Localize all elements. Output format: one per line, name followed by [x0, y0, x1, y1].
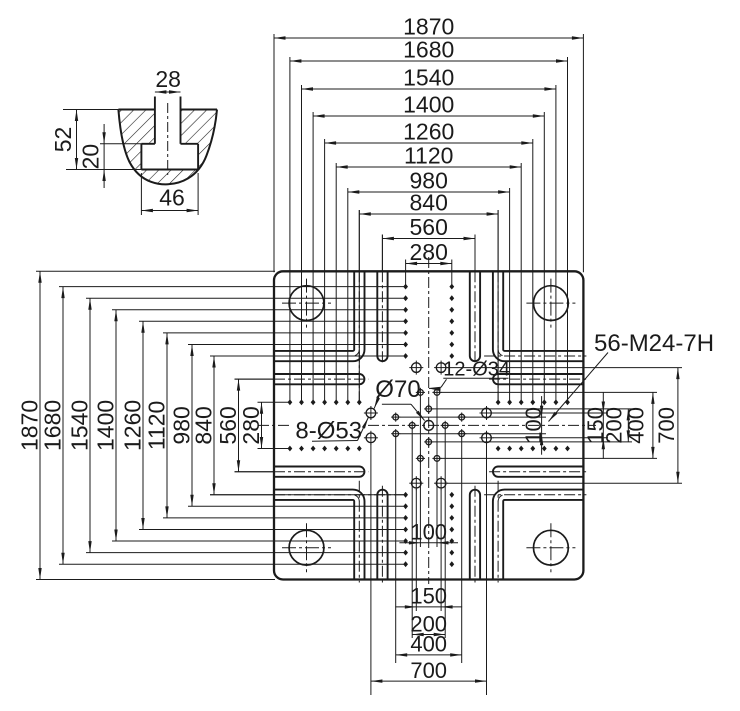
ext line x=+200 to bottom dims — [461, 438, 463, 663]
M24 tapped holes left column (x=±140) — [403, 284, 408, 567]
straight T-slot right upper horizontal — [493, 374, 583, 384]
dimension left 1260 — [119, 321, 405, 529]
dimension top 1400 — [313, 92, 544, 403]
ext line x=-100 to bottom dims — [411, 429, 413, 638]
detail slot outline — [141, 97, 198, 170]
svg-text:1540: 1540 — [403, 65, 454, 91]
svg-text:56-M24-7H: 56-M24-7H — [594, 330, 714, 357]
ext line x=+75 to bottom 150 dim — [440, 489, 442, 611]
dimension right 150 — [583, 392, 608, 459]
dimension top 1260 — [325, 119, 533, 403]
ext line y=+75 to right 150 dim — [493, 437, 609, 439]
840 extension / elbow centerline vertical right — [497, 210, 499, 271]
ext line x=-50 to bottom 100 dim — [419, 396, 421, 547]
dimension bottom 400 — [396, 632, 462, 657]
dimension left 840 — [190, 356, 405, 495]
dimension bottom 700 — [371, 658, 487, 683]
svg-text:840: 840 — [410, 190, 448, 216]
dimension top 1540 — [302, 65, 556, 403]
straight T-slot left lower horizontal — [274, 466, 364, 476]
straight T-slot top-left vertical — [377, 271, 387, 361]
ext line y=+100 to right dims — [433, 441, 632, 443]
right elbow centerline horizontals — [484, 355, 586, 357]
M24 tapped holes top row (y=±140) — [288, 399, 570, 405]
dimension right 700 — [654, 368, 680, 484]
svg-text:700: 700 — [410, 658, 447, 683]
svg-text:1120: 1120 — [143, 401, 169, 450]
detail dimension 46 — [141, 173, 198, 215]
elbow T-slot top-left — [274, 271, 365, 361]
svg-text:100: 100 — [521, 407, 546, 444]
M24 tapped holes right column (x=±140) — [449, 284, 454, 567]
slot centerline bottom-left — [381, 486, 383, 583]
svg-text:1680: 1680 — [39, 400, 65, 451]
detail dimension 28 — [155, 66, 181, 94]
detail slot white cutout — [141, 107, 198, 170]
ext line x=+100 to bottom dims — [444, 429, 446, 638]
svg-text:1260: 1260 — [119, 400, 145, 451]
bottom elbow centerline verticals — [358, 481, 360, 583]
svg-text:840: 840 — [190, 406, 216, 444]
slot centerline right-upper — [489, 378, 586, 380]
svg-text:1540: 1540 — [66, 400, 92, 451]
svg-text:400: 400 — [623, 407, 648, 444]
straight T-slot bottom-left vertical — [377, 490, 387, 580]
ext line y=+50 to right 100 dim — [400, 433, 546, 435]
dimension top 280 — [406, 239, 452, 286]
dimension left 980 — [168, 345, 405, 507]
svg-text:46: 46 — [159, 185, 185, 211]
detail body top edge — [118, 109, 154, 111]
svg-text:1680: 1680 — [403, 37, 454, 63]
dimension top 560 — [382, 214, 475, 271]
dimension top 980 — [348, 168, 510, 403]
svg-text:20: 20 — [78, 144, 104, 170]
dimension left 1120 — [143, 333, 405, 518]
ext line y=+350 Ø53 row to right dims — [447, 482, 682, 484]
dimension top 1870 — [274, 14, 583, 273]
ext line y=+200 to right dims — [441, 457, 657, 459]
straight T-slot top-right vertical — [470, 271, 480, 361]
dimension left 1400 — [92, 310, 405, 541]
svg-text:28: 28 — [155, 66, 181, 92]
svg-text:100: 100 — [410, 520, 447, 545]
tie bar hole circle 2 — [526, 279, 575, 328]
label Ø70 with leader — [375, 376, 424, 421]
840 extension / elbow centerline horizontal bottom — [210, 494, 274, 496]
detail slot centerline — [167, 103, 169, 175]
dimension top 840 — [359, 190, 498, 403]
ext line x=-75 to bottom 150 dim — [415, 489, 417, 611]
svg-text:400: 400 — [410, 632, 447, 657]
dimension left 1870 — [16, 271, 275, 579]
label 8-Ø53 with leader — [295, 418, 368, 445]
dimension left 560 — [215, 379, 274, 472]
elbow T-slot bottom-left — [274, 490, 365, 580]
ext line x=-350 Ø53 col to bottom dims — [370, 444, 372, 695]
svg-text:1120: 1120 — [404, 143, 453, 169]
840 extension / elbow centerline horizontal top — [210, 355, 274, 357]
ext line x=+50 to bottom 100 dim — [436, 396, 438, 547]
dimension left 1540 — [66, 298, 405, 552]
svg-text:52: 52 — [50, 127, 76, 153]
elbow T-slot bottom-right — [493, 490, 584, 580]
detail dimension 52 — [50, 110, 141, 170]
8 x Ø53 holes — [364, 361, 494, 491]
ext line y=-350 Ø53 row to right dims — [447, 367, 682, 369]
ext line y=-50 to right 100 dim — [400, 416, 546, 418]
dimension left 280 — [238, 402, 290, 448]
svg-text:1260: 1260 — [403, 119, 454, 145]
840 extension / elbow centerline vertical left — [358, 210, 360, 271]
ext line y=-75 to right 150 dim — [493, 412, 609, 414]
slot centerline bottom-right — [474, 486, 476, 583]
label 12-Ø34 with leader — [429, 359, 510, 392]
svg-text:Ø70: Ø70 — [375, 376, 420, 403]
center hole Ø70 — [424, 421, 434, 431]
12 x Ø34 holes — [391, 388, 466, 463]
tie bar hole circle 1 — [282, 279, 331, 328]
M24 tapped holes bottom row (y=±140) — [288, 446, 570, 452]
horizontal centerline — [258, 424, 292, 426]
vertical centerline — [428, 257, 430, 584]
dimension right 400 — [623, 392, 654, 458]
slot centerline right-lower — [489, 471, 586, 473]
straight T-slot bottom-right vertical — [470, 490, 480, 580]
560 ext / slot centerline top-right — [474, 235, 476, 272]
svg-text:700: 700 — [654, 407, 679, 444]
straight T-slot right lower horizontal — [493, 466, 583, 476]
svg-text:1400: 1400 — [403, 92, 454, 118]
ext line y=-200 to right dims — [441, 391, 657, 393]
svg-text:12-Ø34: 12-Ø34 — [443, 359, 510, 381]
dimension bottom 200 — [410, 611, 447, 636]
straight T-slot left upper horizontal — [274, 374, 364, 384]
svg-text:560: 560 — [410, 214, 448, 240]
dimension top 1120 — [336, 143, 521, 403]
platen plate outline — [274, 271, 583, 579]
560 ext / slot centerline left-upper — [235, 378, 275, 380]
label 56-M24-7H with leader — [549, 330, 715, 422]
svg-text:150: 150 — [410, 584, 447, 609]
dimension left 1680 — [39, 287, 405, 565]
ext line y=-100 to right dims — [433, 408, 632, 410]
tie bar hole circle 4 — [526, 523, 575, 572]
560 ext / slot centerline left-lower — [235, 471, 275, 473]
dimension top 1680 — [290, 37, 568, 403]
dimension bottom 100 — [399, 520, 458, 545]
ext line x=+350 Ø53 col to bottom dims — [486, 444, 488, 695]
ext line x=-200 to bottom dims — [395, 438, 397, 663]
560 ext / slot centerline top-left — [381, 235, 383, 272]
detail dimension 20 — [78, 124, 142, 188]
dimension bottom 150 — [395, 584, 462, 609]
dimension right 100 — [521, 396, 546, 455]
svg-text:1400: 1400 — [92, 400, 118, 451]
tie bar hole circle 3 — [282, 523, 331, 572]
leader into Ø53 hole from Ø70 label area — [374, 394, 380, 408]
elbow T-slot top-right — [493, 271, 584, 361]
dimension right 200 — [601, 407, 630, 444]
